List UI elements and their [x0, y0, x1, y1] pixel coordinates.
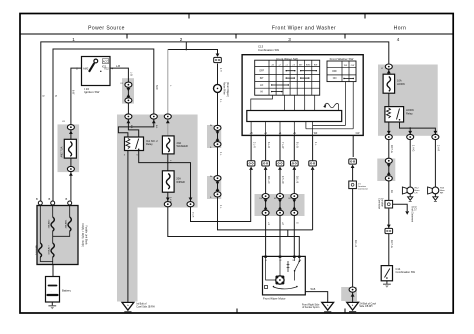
svg-text:+S: +S: [293, 133, 296, 135]
svg-text:20A: 20A: [176, 177, 181, 181]
svg-text:Theft Deterrent: Theft Deterrent: [411, 206, 414, 222]
svg-text:18 H-G: 18 H-G: [390, 145, 393, 153]
svg-text:8 L-B: 8 L-B: [296, 142, 299, 148]
svg-text:ON: ON: [333, 77, 337, 80]
svg-text:EW: EW: [314, 64, 317, 66]
svg-text:6 L-O: 6 L-O: [267, 142, 270, 148]
svg-text:1 H-G: 1 H-G: [411, 145, 414, 152]
svg-text:IG2: IG2: [105, 67, 110, 71]
svg-text:RH: RH: [440, 193, 444, 195]
svg-text:CW: CW: [351, 65, 355, 67]
svg-text:18 L-O: 18 L-O: [267, 176, 270, 183]
svg-text:I 10(A), I 11(B), I 12(C): I 10(A), I 11(B), I 12(C): [81, 223, 84, 247]
svg-text:Battery: Battery: [62, 289, 71, 293]
svg-text:B-W: B-W: [155, 85, 158, 90]
svg-text:IJ: IJ: [381, 68, 383, 70]
svg-text:Combination SW: Combination SW: [258, 48, 279, 52]
svg-text:16 L-R: 16 L-R: [354, 240, 357, 247]
svg-text:L-B: L-B: [129, 72, 132, 76]
svg-text:Junction: Junction: [358, 185, 367, 188]
svg-text:2.0L MAIN: 2.0L MAIN: [35, 244, 38, 255]
svg-text:Connector: Connector: [358, 188, 368, 191]
svg-text:7 L-W: 7 L-W: [281, 142, 284, 149]
svg-text:LO: LO: [260, 84, 263, 87]
svg-text:HI: HI: [260, 91, 263, 94]
svg-text:Ignition SW: Ignition SW: [84, 90, 100, 94]
svg-text:+B: +B: [250, 133, 253, 135]
svg-text:16 H-G: 16 H-G: [390, 240, 393, 248]
svg-text:HORN: HORN: [406, 108, 414, 112]
svg-text:(Front Wiper): (Front Wiper): [226, 82, 229, 97]
svg-text:Noise Filter: Noise Filter: [223, 82, 226, 95]
svg-text:2: 2: [180, 37, 183, 42]
svg-text:ECU: ECU: [414, 206, 417, 211]
svg-text:100A ALT: 100A ALT: [48, 245, 51, 255]
svg-text:AM2 7.5A: AM2 7.5A: [61, 146, 64, 157]
svg-text:4: 4: [397, 37, 400, 42]
svg-text:20A: 20A: [177, 141, 182, 145]
svg-text:40A AM1: 40A AM1: [65, 219, 68, 229]
svg-text:IG: IG: [274, 198, 277, 200]
svg-text:1 H: 1 H: [219, 68, 222, 72]
svg-text:IG1 NO. 2: IG1 NO. 2: [146, 139, 158, 143]
svg-text:30A AM2: 30A AM2: [48, 219, 51, 229]
svg-text:B: B: [49, 197, 51, 201]
svg-text:Horn: Horn: [440, 189, 446, 192]
svg-text:Relay: Relay: [146, 142, 153, 146]
svg-text:ACC: ACC: [103, 59, 109, 63]
svg-text:Relay: Relay: [406, 112, 413, 116]
svg-text:WF: WF: [314, 133, 318, 135]
svg-text:1: 1: [72, 37, 75, 42]
svg-text:AM2: AM2: [83, 67, 89, 71]
svg-text:Side J/B RH: Side J/B RH: [359, 305, 372, 308]
svg-text:6 W: 6 W: [72, 90, 75, 95]
svg-text:Power Source: Power Source: [88, 26, 125, 32]
svg-text:Fusible Link Block: Fusible Link Block: [85, 225, 88, 245]
svg-text:of Fender Apron: of Fender Apron: [302, 306, 320, 309]
svg-text:17 L-W: 17 L-W: [281, 176, 284, 184]
svg-text:2 H-R: 2 H-R: [437, 145, 440, 152]
svg-text:3: 3: [288, 37, 291, 42]
svg-text:WASHER: WASHER: [177, 144, 188, 148]
svg-text:2 L-R: 2 L-R: [192, 212, 194, 218]
svg-text:WIPER: WIPER: [176, 180, 185, 184]
svg-text:Connector: Connector: [377, 198, 380, 209]
svg-text:OFF: OFF: [332, 70, 337, 73]
svg-text:HORN: HORN: [397, 82, 405, 86]
svg-text:16 L-B: 16 L-B: [296, 176, 299, 183]
svg-text:INT: INT: [260, 77, 264, 80]
svg-text:IG: IG: [288, 198, 291, 200]
svg-text:Front Washer SW: Front Washer SW: [330, 57, 354, 61]
svg-text:W-B: W-B: [311, 288, 316, 291]
svg-text:L-B: L-B: [116, 64, 120, 68]
svg-text:Combination SW: Combination SW: [396, 270, 416, 274]
svg-text:2 L-R: 2 L-R: [252, 142, 255, 148]
svg-text:C14: C14: [396, 267, 401, 271]
svg-text:5 L-W: 5 L-W: [169, 197, 171, 204]
svg-text:Horn: Horn: [394, 26, 407, 32]
svg-text:B: B: [66, 197, 68, 201]
svg-text:OFF: OFF: [259, 70, 264, 73]
svg-text:Front Wiper and Washer: Front Wiper and Washer: [272, 26, 336, 32]
svg-text:Horn: Horn: [415, 189, 421, 192]
svg-text:10A: 10A: [397, 79, 402, 83]
svg-text:Cowl Side JB RH: Cowl Side JB RH: [136, 305, 155, 308]
svg-text:LH: LH: [415, 193, 418, 195]
svg-text:Front Wiper Motor: Front Wiper Motor: [263, 296, 286, 300]
svg-text:B: B: [36, 197, 38, 201]
svg-text:IG: IG: [260, 198, 263, 200]
